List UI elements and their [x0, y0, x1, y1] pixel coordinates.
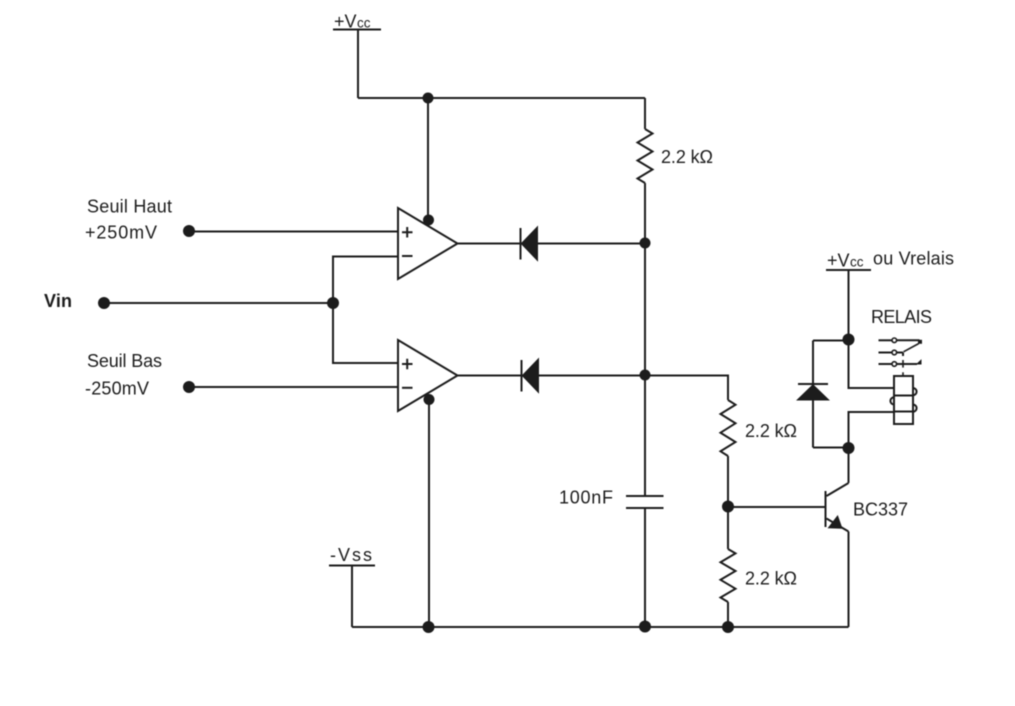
- svg-text:cc: cc: [850, 255, 864, 270]
- node U1 supply dot: [423, 215, 434, 226]
- svg-text:2.2 kΩ: 2.2 kΩ: [745, 421, 797, 441]
- diode D2: [522, 360, 539, 392]
- wire Q1 collector: [848, 448, 850, 483]
- svg-text:Seuil Bas: Seuil Bas: [87, 351, 162, 371]
- wire rail to resistor R1: [644, 98, 646, 129]
- wire U2 output: [458, 375, 522, 377]
- resistor R2: [721, 400, 736, 456]
- power +Vcc underline: [333, 29, 381, 31]
- node input Seuil Haut terminal: [183, 225, 195, 237]
- power +Vcc relais underline: [826, 269, 871, 271]
- svg-text:ou Vrelais: ou Vrelais: [873, 249, 954, 269]
- svg-text:cc: cc: [357, 16, 371, 31]
- wire Vin horizontal: [104, 302, 333, 304]
- power +Vcc ou Vrelais label: [827, 249, 954, 271]
- node rail capacitor: [639, 621, 651, 633]
- node B: [640, 370, 651, 381]
- svg-text:2.2 kΩ: 2.2 kΩ: [661, 147, 713, 167]
- svg-text:-Vss: -Vss: [330, 545, 372, 565]
- power -Vss underline: [329, 565, 375, 567]
- wire Seuil Haut to U1 plus input: [189, 231, 398, 233]
- svg-text:Vin: Vin: [44, 291, 72, 311]
- wire +Vcc stub: [357, 30, 359, 98]
- power +Vcc label: [334, 12, 371, 32]
- node U2 supply dot: [424, 394, 435, 405]
- svg-text:BC337: BC337: [853, 500, 908, 520]
- wire flyback vertical upper: [812, 341, 814, 385]
- wire node A to node B: [644, 243, 646, 375]
- node Vin junction: [327, 297, 339, 309]
- wire C1 to bottom rail: [644, 508, 646, 627]
- node coil top junction: [843, 334, 855, 346]
- relay contact terminal 2 (common, armature): [879, 344, 919, 357]
- wire R1 to node A: [644, 183, 646, 243]
- wire base node to Q1 base: [728, 506, 826, 508]
- svg-text:+250mV: +250mV: [85, 223, 157, 243]
- node collector junction: [843, 442, 855, 454]
- wire U2 supply to bottom rail: [428, 394, 430, 627]
- transistor Q1 BC337: [826, 483, 849, 532]
- node rail U2 supply: [423, 621, 435, 633]
- relay contact terminal 3: [879, 360, 922, 366]
- svg-text:100nF: 100nF: [559, 488, 613, 508]
- resistor R3: [721, 549, 736, 602]
- svg-text:Seuil Haut: Seuil Haut: [87, 197, 172, 217]
- wire node B to resistor R2: [645, 376, 728, 401]
- wire D1 to node A: [537, 243, 645, 245]
- diode D3 flyback: [798, 384, 828, 400]
- wire U1 output: [458, 243, 522, 245]
- relay contact terminal 1: [879, 338, 923, 344]
- wire coil return bottom: [849, 412, 895, 448]
- wire flyback branch bottom: [813, 447, 849, 449]
- op-amp U1 plus sign: [402, 227, 413, 238]
- diode D1: [521, 228, 538, 260]
- op-amp U2: [398, 340, 458, 411]
- wire Vin vertical branch: [333, 257, 398, 364]
- node Vin terminal: [98, 297, 110, 309]
- svg-text:RELAIS: RELAIS: [871, 307, 932, 327]
- node base junction: [722, 501, 734, 513]
- relay armature dashed link: [902, 360, 904, 376]
- wire flyback branch top: [813, 340, 849, 342]
- svg-text:2.2 kΩ: 2.2 kΩ: [745, 569, 797, 589]
- relay coil K1: [890, 376, 916, 424]
- wire op-amp U1 supply: [427, 98, 429, 225]
- op-amp U1 minus sign: [402, 255, 413, 257]
- wire coil feed top: [849, 340, 895, 389]
- node A: [640, 238, 651, 249]
- wire +Vcc relais stub: [848, 271, 850, 340]
- capacitor C1: [626, 496, 664, 508]
- wire node B to capacitor C1: [644, 375, 646, 496]
- wire R3 to bottom rail: [727, 602, 729, 627]
- wire Q1 emitter to rail: [848, 532, 850, 628]
- op-amp U2 minus sign: [402, 387, 413, 389]
- wire -Vss stub: [351, 566, 353, 627]
- svg-text:-250mV: -250mV: [85, 379, 149, 399]
- wire R2 to node base: [727, 456, 729, 507]
- node rail R3: [722, 621, 734, 633]
- wire flyback vertical lower: [812, 400, 814, 448]
- wire D2 to node B: [538, 375, 645, 377]
- resistor R1: [638, 129, 653, 183]
- wire Seuil Bas to U2 minus input: [189, 386, 398, 388]
- svg-text:+V: +V: [827, 251, 850, 271]
- op-amp U2 plus sign: [402, 359, 413, 370]
- op-amp U1: [398, 208, 458, 279]
- wire top rail: [358, 97, 645, 99]
- node top rail junction: [423, 93, 434, 104]
- node input Seuil Bas terminal: [183, 381, 195, 393]
- wire bottom rail: [352, 626, 849, 628]
- wire base node to R3: [727, 507, 729, 549]
